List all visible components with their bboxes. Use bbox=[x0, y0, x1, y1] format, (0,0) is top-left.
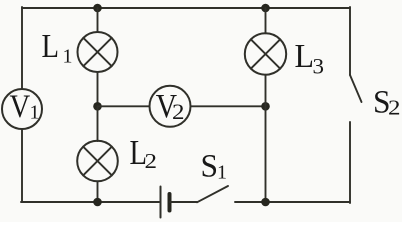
node junction mid right bbox=[261, 102, 270, 111]
wire mid left to V2 bbox=[98, 105, 150, 107]
wire right upper bbox=[349, 7, 351, 75]
wire top horizontal bbox=[22, 7, 350, 9]
svg-text:1: 1 bbox=[30, 102, 40, 124]
node junction bottom right bbox=[261, 198, 270, 207]
wire battery to switch bbox=[170, 201, 197, 203]
battery positive plate bbox=[160, 187, 162, 218]
wire L1 to mid junction bbox=[97, 72, 99, 106]
lamp L1 bbox=[78, 32, 118, 72]
svg-text:V: V bbox=[10, 89, 31, 125]
node junction mid left bbox=[93, 102, 102, 111]
wire V2 to mid right junction bbox=[191, 105, 266, 107]
lamp L3 bbox=[245, 33, 286, 74]
voltmeter V2 bbox=[150, 86, 191, 127]
battery negative plate bbox=[168, 194, 172, 211]
wire L3 to bottom junction bbox=[265, 75, 267, 202]
label S2 bbox=[373, 84, 401, 120]
wire left lower bbox=[21, 129, 23, 202]
wire bottom left bbox=[21, 201, 159, 203]
wire left upper bbox=[21, 7, 23, 89]
svg-text:2: 2 bbox=[172, 99, 185, 124]
svg-text:2: 2 bbox=[388, 96, 401, 120]
wire L2 to bottom junction bbox=[97, 181, 99, 202]
svg-text:1: 1 bbox=[63, 46, 73, 68]
svg-text:L: L bbox=[295, 38, 315, 75]
svg-text:3: 3 bbox=[313, 54, 325, 79]
node junction top left bbox=[93, 4, 102, 13]
svg-text:L: L bbox=[42, 28, 60, 65]
wire mid junction to L2 bbox=[97, 106, 99, 141]
svg-text:1: 1 bbox=[217, 162, 227, 184]
switch S1 blade bbox=[197, 186, 228, 202]
label S1 bbox=[201, 148, 228, 184]
label L2 bbox=[130, 133, 158, 173]
voltmeter V1 bbox=[2, 89, 42, 129]
node junction top right bbox=[261, 4, 270, 13]
switch S2 blade bbox=[350, 75, 362, 102]
node junction bottom left bbox=[93, 198, 102, 207]
wire right lower bbox=[349, 122, 351, 203]
label L3 bbox=[295, 38, 325, 79]
wire top junction to L3 bbox=[265, 8, 267, 33]
lamp L2 bbox=[77, 141, 118, 182]
svg-text:S: S bbox=[201, 148, 219, 184]
wire top junction to L1 bbox=[97, 8, 99, 32]
label L1 bbox=[42, 28, 73, 68]
wire bottom right bbox=[235, 201, 350, 203]
svg-text:2: 2 bbox=[145, 149, 158, 173]
